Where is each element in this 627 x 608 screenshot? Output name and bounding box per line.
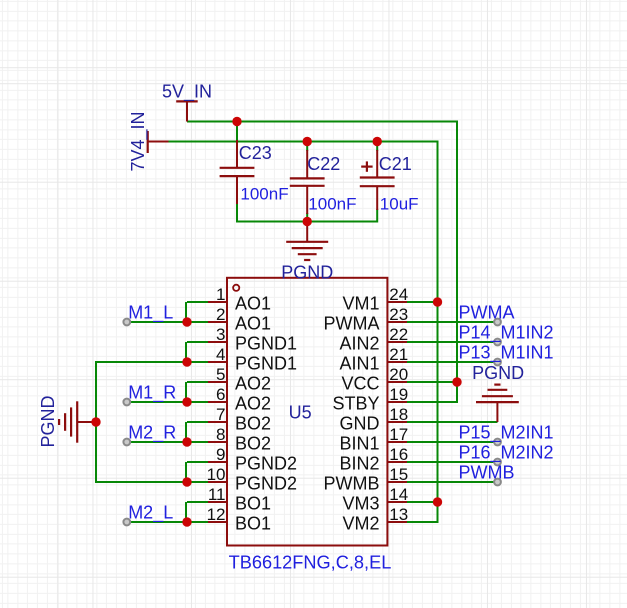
svg-text:5V_IN: 5V_IN — [162, 82, 212, 103]
svg-text:100nF: 100nF — [308, 194, 356, 213]
svg-text:PGND: PGND — [281, 263, 333, 283]
svg-text:BIN2: BIN2 — [339, 453, 379, 473]
svg-text:STBY: STBY — [332, 393, 379, 413]
svg-text:1: 1 — [216, 285, 225, 304]
svg-text:100nF: 100nF — [240, 184, 288, 203]
svg-text:7V4_IN: 7V4_IN — [128, 111, 149, 171]
svg-text:24: 24 — [389, 285, 408, 304]
svg-text:M1_L: M1_L — [128, 303, 173, 324]
svg-text:21: 21 — [389, 345, 408, 364]
svg-text:13: 13 — [389, 505, 408, 524]
svg-text:4: 4 — [216, 345, 225, 364]
svg-text:PWMA: PWMA — [324, 313, 380, 333]
svg-text:P13_M1IN1: P13_M1IN1 — [459, 343, 554, 364]
svg-text:P15_M2IN1: P15_M2IN1 — [459, 423, 554, 444]
svg-text:PGND: PGND — [472, 363, 524, 383]
svg-text:BO1: BO1 — [235, 493, 271, 513]
svg-text:9: 9 — [216, 445, 225, 464]
svg-text:PWMB: PWMB — [324, 473, 380, 493]
svg-text:AO2: AO2 — [235, 373, 271, 393]
svg-text:VM3: VM3 — [342, 493, 379, 513]
svg-text:7: 7 — [216, 405, 225, 424]
svg-text:PGND: PGND — [38, 395, 58, 447]
svg-text:BO2: BO2 — [235, 413, 271, 433]
svg-text:BO2: BO2 — [235, 433, 271, 453]
svg-text:AIN1: AIN1 — [339, 353, 379, 373]
svg-text:23: 23 — [389, 305, 408, 324]
svg-text:PWMA: PWMA — [459, 303, 515, 323]
svg-text:PGND2: PGND2 — [235, 473, 297, 493]
svg-text:11: 11 — [208, 485, 226, 504]
svg-text:M2_R: M2_R — [128, 423, 176, 444]
svg-text:AO2: AO2 — [235, 393, 271, 413]
svg-text:PGND2: PGND2 — [235, 453, 297, 473]
svg-text:17: 17 — [389, 425, 408, 444]
svg-text:14: 14 — [389, 485, 408, 504]
svg-text:5: 5 — [216, 365, 225, 384]
svg-text:15: 15 — [389, 465, 408, 484]
svg-text:22: 22 — [389, 325, 408, 344]
svg-text:U5: U5 — [289, 403, 312, 423]
svg-text:PGND1: PGND1 — [235, 333, 297, 353]
svg-text:AO1: AO1 — [235, 293, 271, 313]
svg-text:C22: C22 — [307, 154, 340, 174]
svg-text:19: 19 — [389, 385, 408, 404]
svg-text:PGND1: PGND1 — [235, 353, 297, 373]
svg-text:P14_M1IN2: P14_M1IN2 — [459, 323, 554, 344]
svg-text:P16_M2IN2: P16_M2IN2 — [459, 443, 554, 464]
svg-text:TB6612FNG,C,8,EL: TB6612FNG,C,8,EL — [229, 553, 392, 573]
svg-text:16: 16 — [389, 445, 408, 464]
svg-text:VM2: VM2 — [342, 513, 379, 533]
svg-text:M2_L: M2_L — [128, 503, 173, 524]
svg-text:AIN2: AIN2 — [339, 333, 379, 353]
svg-text:VCC: VCC — [341, 373, 379, 393]
svg-text:PWMB: PWMB — [459, 463, 515, 483]
svg-text:GND: GND — [340, 413, 380, 433]
svg-text:3: 3 — [216, 325, 225, 344]
svg-text:BIN1: BIN1 — [339, 433, 379, 453]
svg-text:6: 6 — [216, 385, 225, 404]
svg-text:18: 18 — [389, 405, 408, 424]
svg-text:8: 8 — [216, 425, 225, 444]
svg-text:12: 12 — [207, 505, 226, 524]
svg-text:AO1: AO1 — [235, 313, 271, 333]
svg-text:10: 10 — [207, 465, 226, 484]
svg-text:VM1: VM1 — [342, 293, 379, 313]
svg-text:10uF: 10uF — [380, 194, 419, 213]
svg-text:2: 2 — [216, 305, 225, 324]
svg-text:BO1: BO1 — [235, 513, 271, 533]
svg-text:C21: C21 — [379, 154, 412, 174]
svg-text:20: 20 — [389, 365, 408, 384]
svg-text:M1_R: M1_R — [128, 383, 176, 404]
svg-text:C23: C23 — [239, 143, 272, 163]
